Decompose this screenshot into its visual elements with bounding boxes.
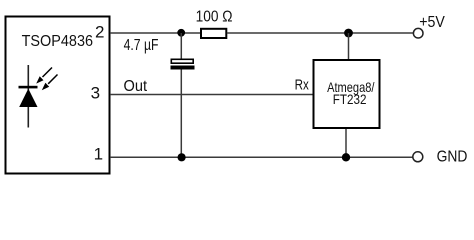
svg-text:Rx: Rx [295, 76, 310, 93]
svg-text:FT232: FT232 [333, 91, 367, 107]
svg-text:Out: Out [124, 78, 148, 95]
cap bottom plate (solid) [171, 66, 195, 70]
IC U1 TSOP4836 box [6, 17, 110, 174]
wire pin2 to resistor [110, 32, 201, 34]
wire IC bottom to ground rail [345, 129, 347, 157]
svg-text:1: 1 [94, 144, 103, 163]
svg-text:2: 2 [95, 22, 104, 41]
junction dot cap to ground [178, 153, 186, 161]
wire junction to cap top [180, 33, 182, 59]
wire resistor to +5V terminal [227, 32, 414, 34]
svg-text:3: 3 [91, 83, 100, 102]
junction dot IC to ground [342, 153, 350, 161]
GND terminal circle [413, 152, 423, 162]
svg-text:4.7 µF: 4.7 µF [124, 37, 159, 54]
+5V terminal circle [413, 28, 423, 38]
svg-text:+5V: +5V [419, 14, 445, 31]
wire cap bottom to ground rail [180, 70, 182, 158]
capacitor C1 [171, 33, 195, 157]
svg-text:100 Ω: 100 Ω [196, 8, 233, 25]
anode triangle [19, 89, 37, 107]
diode axis wire [27, 65, 29, 128]
light arrow 2 [42, 75, 58, 91]
cathode bar [19, 86, 38, 89]
junction dot at capacitor top [177, 29, 185, 37]
svg-text:TSOP4836: TSOP4836 [22, 33, 93, 50]
cap top plate (hollow) [171, 59, 193, 63]
junction dot at VCC of IC [344, 29, 353, 38]
ground rail wire [110, 156, 413, 158]
IC U2 Atmega8/FT232 box [314, 60, 380, 128]
wire Out pin3 to Rx [110, 94, 313, 96]
light arrow 1 [36, 68, 52, 84]
wire VCC dot to IC top [348, 33, 350, 59]
svg-text:GND: GND [437, 148, 468, 165]
resistor R1 [201, 29, 226, 38]
photodiode D1 [19, 65, 58, 128]
